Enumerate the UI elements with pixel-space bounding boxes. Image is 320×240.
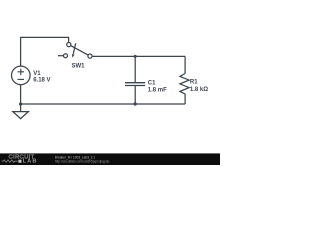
footer bar <box>0 153 220 165</box>
node: junction dot at C1 bottom <box>134 102 137 105</box>
node: junction dot at V1 / ground / bottom rail <box>19 102 22 105</box>
svg-text:LAB: LAB <box>23 159 38 165</box>
svg-text:V1: V1 <box>33 71 41 77</box>
wire: V1 bottom lead <box>20 85 22 105</box>
wire: SW1 right terminal to right rail corner <box>92 55 185 57</box>
voltage source V1 <box>11 66 30 85</box>
capacitor C1 <box>125 56 145 104</box>
svg-text:R1: R1 <box>190 80 198 86</box>
wire: top rail from V1 top to SW1 drop <box>21 37 69 66</box>
svg-text:SW1: SW1 <box>72 63 86 69</box>
wire: right rail bottom (R1 to bottom rail) <box>184 94 186 104</box>
resistor R1 <box>180 74 189 94</box>
svg-text:http://circuitlab.com/c/e6b5pq: http://circuitlab.com/c/e6b5pq/cdpqpdp <box>55 160 110 164</box>
svg-text:6.18 V: 6.18 V <box>33 78 50 84</box>
switch SW1 <box>58 43 92 59</box>
CircuitLab logo: resistor zigzag <box>2 160 18 163</box>
ground <box>13 104 29 119</box>
svg-text:1.8 mF: 1.8 mF <box>148 88 167 94</box>
svg-text:Breaker_M / 1003_Lab3_2.1: Breaker_M / 1003_Lab3_2.1 <box>55 155 96 159</box>
svg-text:1.8 kΩ: 1.8 kΩ <box>190 87 208 93</box>
svg-text:C1: C1 <box>148 81 156 87</box>
node: junction dot at C1 top <box>134 55 137 58</box>
CircuitLab logo: LAB <box>18 160 21 163</box>
wire: right rail top (to R1) <box>184 56 186 73</box>
wire: bottom rail <box>21 103 186 105</box>
